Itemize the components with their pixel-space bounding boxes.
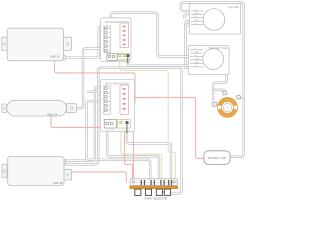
- wire jumper selector bottom lugs 3-4: [162, 191, 164, 193]
- pickup EMG 81 (neck humbucker): [2, 28, 72, 61]
- wire W8a buss1 output pin to volume pot pin4: [128, 21, 193, 65]
- wire Y1 yellow buss1 green pin to selector bar right: [120, 60, 176, 186]
- selector top lugs: [141, 180, 172, 185]
- buss board 2 EMG SOLDERLESS: [101, 80, 135, 132]
- svg-text:OUT: OUT: [195, 20, 200, 22]
- wire W1 pickup1 cable to buss1 top pins: [64, 26, 105, 57]
- svg-text:EMG 85: EMG 85: [53, 181, 63, 185]
- jack orange ring: [218, 98, 238, 118]
- wire stub tone pot pin6 from bundle: [184, 66, 193, 69]
- svg-text:GND: GND: [195, 13, 200, 15]
- selector orange blade: [130, 186, 178, 189]
- wire R2 red from pickup2 down to selector bottom lug1: [51, 116, 132, 186]
- svg-text:GND: GND: [195, 52, 200, 54]
- wire R4 red buss2 to battery clip: [129, 97, 206, 158]
- wire W2 pickup2 cable to buss1 lower pins: [76, 49, 106, 109]
- wire stub volume pot pin5 hook: [186, 25, 194, 27]
- buss1 bottom 2-pin block: [107, 54, 117, 61]
- wire W9 buss1 top to master tone pin3: [111, 13, 193, 57]
- svg-text:EMG 81: EMG 81: [50, 54, 60, 58]
- svg-text:VOLUME: VOLUME: [228, 5, 239, 9]
- wire Y2 yellow buss2 green pin to selector lug3: [121, 130, 162, 180]
- wire stub buss2 pin2 branch: [87, 91, 106, 93]
- buss2 left pin header: [104, 86, 111, 115]
- buss2 bottom 3-pin block: [118, 120, 131, 129]
- wire stub tone pot pin5 from bundle: [184, 64, 193, 66]
- selector bottom lugs: [135, 189, 171, 195]
- wire J1 master tone bottom to jack left tab: [213, 75, 227, 102]
- wire W11 volume pot pin2 stub: [185, 14, 194, 19]
- wire W13 volume pot pin1 over top edge down to battery clip right: [181, 3, 244, 157]
- buss1 left pin header: [104, 26, 111, 53]
- wire W3 pickup3 cable A to buss2 pin1: [66, 87, 106, 160]
- battery clip: [204, 151, 230, 165]
- jack top tab: [223, 91, 228, 95]
- wire dark stub buss2 output pin: [126, 124, 128, 133]
- svg-text:GND: GND: [195, 62, 200, 64]
- COMPONENTS-LAYER: [2, 4, 241, 201]
- svg-text:OUT: OUT: [195, 58, 200, 60]
- wire W6 buss2 pin4 to selector top lug2: [87, 101, 151, 180]
- WIRES-LAYER: [51, 3, 244, 194]
- svg-text:BATTERY CLIP: BATTERY CLIP: [208, 156, 226, 160]
- wire R1 red from pickup1 along bundle down to selector bottom lug4 area: [55, 61, 135, 104]
- jack left tab: [212, 102, 218, 107]
- wire J3 jack right tab to battery cable: [239, 97, 244, 99]
- jack right tab: [236, 95, 241, 100]
- wire W7 buss2 output pin to selector top lug4: [127, 130, 171, 180]
- potentiometer VOLUME: [189, 4, 240, 35]
- wire R3 red from pickup3 to selector area: [72, 172, 127, 183]
- buss1 bottom 3-pin block: [118, 53, 130, 60]
- svg-text:EMG SA: EMG SA: [47, 112, 57, 116]
- buss board 1 EMG SOLDERLESS: [101, 18, 132, 62]
- buss2 bottom 2-pin block: [104, 120, 116, 129]
- wire stub buss2 pin3 branch: [98, 95, 105, 97]
- buss1 red output column: [120, 23, 129, 48]
- wire dark stub buss1 output pin: [127, 57, 129, 63]
- potentiometer MASTER TONE: [188, 46, 229, 75]
- wire stub buss2 pin6 branch: [98, 109, 105, 111]
- wire W4 pickup3 cable B big loop to selector bottom lug4: [66, 68, 182, 194]
- 5-way selector switch: [130, 179, 178, 196]
- pickup EMG 85 (bridge humbucker): [2, 157, 72, 186]
- wire WB1 buss2 bottom block to selector top lug3: [107, 126, 159, 180]
- buss2 red output column: [120, 85, 129, 115]
- output jack: [212, 91, 241, 118]
- selector bar: [130, 179, 177, 186]
- wire R6 red buss2 pin5 down to selector bottom lug2: [129, 108, 134, 186]
- wire J2 jack top tab stub: [213, 90, 225, 94]
- pickup EMG SA (middle single coil): [2, 100, 77, 116]
- svg-text:5-WAY SELECTOR: 5-WAY SELECTOR: [145, 196, 168, 200]
